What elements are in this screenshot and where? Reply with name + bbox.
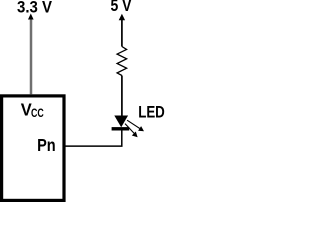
svg-text:Pn: Pn: [37, 135, 56, 155]
svg-text:CC: CC: [31, 106, 44, 120]
svg-text:LED: LED: [138, 104, 165, 122]
svg-text:5 V: 5 V: [111, 0, 132, 15]
svg-text:3.3 V: 3.3 V: [17, 0, 52, 17]
